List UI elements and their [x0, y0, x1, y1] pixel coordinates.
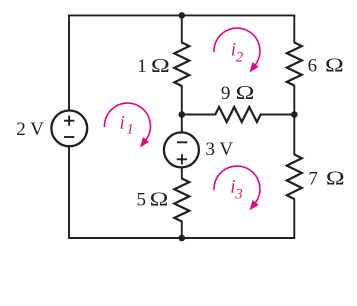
svg-text:Ω: Ω [236, 81, 255, 103]
svg-text:Ω: Ω [150, 187, 169, 209]
svg-text:Ω: Ω [326, 166, 345, 188]
svg-text:i: i [120, 112, 125, 133]
svg-text:Ω: Ω [151, 54, 170, 76]
svg-text:1: 1 [137, 56, 147, 77]
svg-text:2 V: 2 V [16, 119, 44, 140]
svg-text:Ω: Ω [325, 53, 344, 75]
svg-text:2: 2 [236, 49, 244, 65]
svg-text:7: 7 [308, 168, 318, 189]
svg-text:1: 1 [126, 121, 133, 137]
svg-text:5: 5 [137, 189, 147, 210]
svg-text:3 V: 3 V [206, 139, 234, 160]
svg-text:6: 6 [308, 55, 318, 76]
svg-text:9: 9 [221, 83, 231, 104]
svg-text:3: 3 [234, 187, 243, 203]
